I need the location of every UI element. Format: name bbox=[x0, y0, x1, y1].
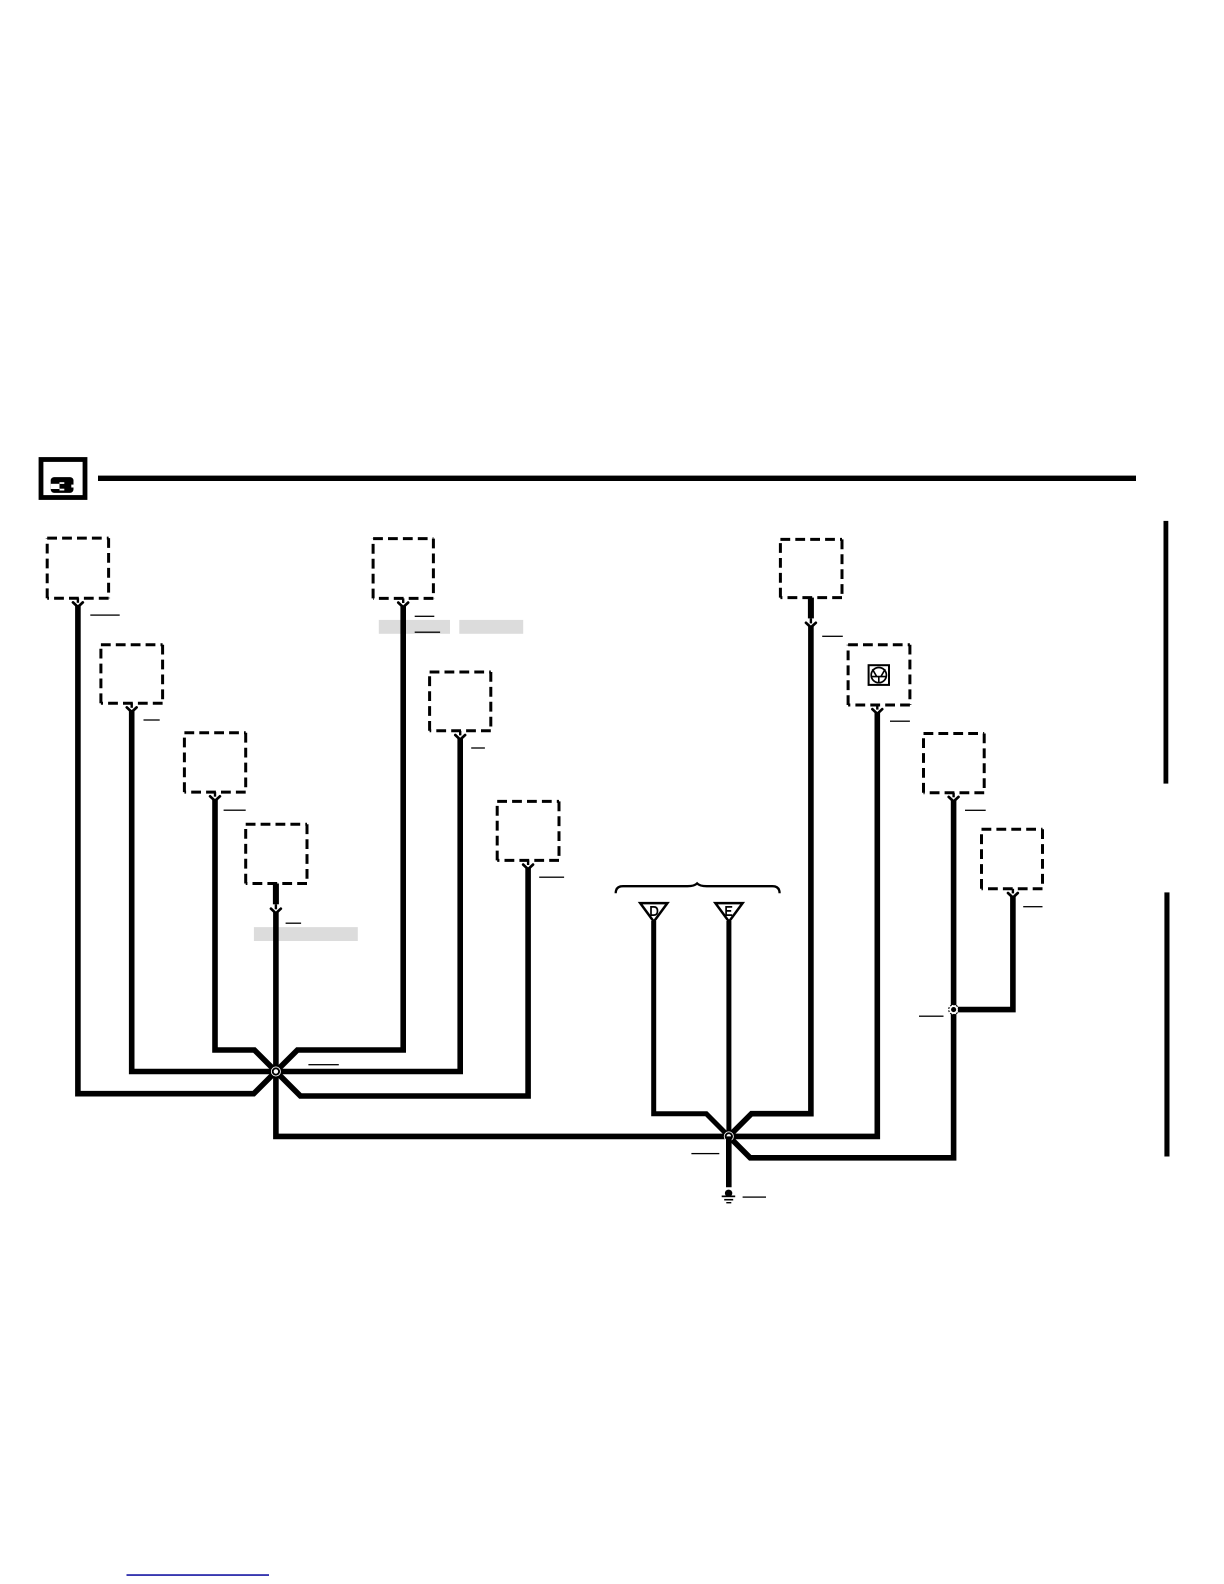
wire W6 (B6 to splice X1, right approach) bbox=[276, 738, 460, 1072]
header rule bbox=[98, 476, 1136, 481]
wire W7 (B7 to splice X1, lower-right approach) bbox=[276, 868, 528, 1096]
splice junction X2 bbox=[724, 1131, 734, 1141]
label L3 (label line) bbox=[224, 810, 246, 811]
arrow A8 (inline arrow on wire) bbox=[806, 598, 816, 628]
connector triangle D bbox=[640, 903, 667, 922]
redacted label bar (below box B5) bbox=[254, 927, 358, 941]
arrow A5 (inline arrow on wire) bbox=[271, 884, 281, 914]
wire W3 (B3 to splice X1, upper-left approach) bbox=[215, 799, 276, 1071]
redacted label bar (left of wire W4) bbox=[379, 620, 450, 634]
box B5 (dashed component box) bbox=[246, 824, 307, 883]
arrow A11 (arrow from box into wire) bbox=[1008, 889, 1018, 898]
arrow A9 (arrow from box into wire) bbox=[872, 705, 882, 714]
ground symbol bbox=[722, 1190, 736, 1204]
icon inside box R2 (wheel symbol) bbox=[869, 665, 889, 685]
wire W11 (R1 to splice X2, upper-right approach) bbox=[729, 626, 811, 1136]
node N (tap on wire W13) bbox=[949, 1005, 959, 1015]
arrow A6 (arrow from box into wire) bbox=[455, 731, 465, 740]
box R3 (dashed component box) bbox=[924, 734, 985, 793]
box B3 (dashed component box) bbox=[184, 733, 245, 792]
label L11 (label line) bbox=[1023, 906, 1042, 907]
label L-N (label line) bbox=[919, 1016, 944, 1017]
box R4 (dashed component box) bbox=[982, 829, 1043, 889]
brace over connectors D and E bbox=[616, 883, 780, 893]
label L2 (label line) bbox=[144, 719, 160, 720]
box R1 (dashed component box) bbox=[780, 539, 842, 597]
wire W13 (R3 down through node N to splice X2, lower-right approach) bbox=[729, 800, 954, 1158]
label L7 (label line) bbox=[539, 877, 564, 878]
label L4b (label line) bbox=[415, 632, 440, 633]
redacted label bar (right of wire W4) bbox=[459, 620, 523, 634]
right margin bar (lower) bbox=[1164, 892, 1169, 1156]
wire W15 (splice X2 down to ground) bbox=[726, 1136, 732, 1187]
label L-X2 (label line) bbox=[691, 1153, 719, 1154]
wire W5 (B5 straight down into splice X1) bbox=[273, 912, 279, 1071]
arrow A10 (arrow from box into wire) bbox=[949, 793, 959, 802]
wire W8 (splice X1 output, down then right to splice X2) bbox=[276, 1072, 729, 1137]
wire W12 (R2 to splice X2, right approach) bbox=[729, 712, 878, 1136]
box R2 (dashed component box) bbox=[848, 645, 910, 705]
label L-G (label line) bbox=[743, 1196, 766, 1197]
label L4a (label line) bbox=[415, 616, 435, 617]
label L1 (label line) bbox=[90, 614, 119, 615]
label L5 (label line) bbox=[286, 923, 302, 924]
right margin bar (upper) bbox=[1164, 521, 1169, 784]
wire W10 (E straight down into splice X2) bbox=[726, 921, 731, 1136]
wire W14 (branch from node N up to R4) bbox=[954, 896, 1013, 1009]
arrow A3 (arrow from box into wire) bbox=[210, 792, 220, 801]
box B1 (dashed component box) bbox=[47, 538, 108, 598]
wire W1 (B1 to splice X1, lower-left approach) bbox=[78, 606, 276, 1094]
label L10 (label line) bbox=[965, 810, 986, 811]
label L8 (label line) bbox=[822, 636, 843, 637]
box B7 (dashed component box) bbox=[497, 801, 559, 860]
page number box "3" bbox=[41, 460, 85, 498]
box B4 (dashed component box) bbox=[373, 539, 433, 599]
wire W9 (D to splice X2, upper-left approach) bbox=[654, 921, 729, 1136]
connector triangle E bbox=[715, 903, 742, 922]
box B6 (dashed component box) bbox=[430, 672, 491, 731]
arrow A2 (arrow from box into wire) bbox=[127, 703, 137, 712]
box B2 (dashed component box) bbox=[101, 645, 163, 704]
wire W2 (B2 to splice X1, left approach) bbox=[132, 710, 276, 1071]
splice junction X1 bbox=[271, 1067, 281, 1077]
wire W4 (B4 to splice X1, upper-right approach) bbox=[276, 606, 403, 1072]
arrow A1 (arrow from box into wire) bbox=[73, 598, 83, 607]
label L6 (label line) bbox=[471, 747, 485, 748]
label L9 (label line) bbox=[890, 721, 910, 722]
label L-X1 (label line) bbox=[308, 1064, 338, 1065]
arrow A7 (arrow from box into wire) bbox=[523, 860, 533, 869]
arrow A4 (arrow from box into wire) bbox=[398, 598, 408, 607]
footer link underline bbox=[127, 1574, 270, 1576]
